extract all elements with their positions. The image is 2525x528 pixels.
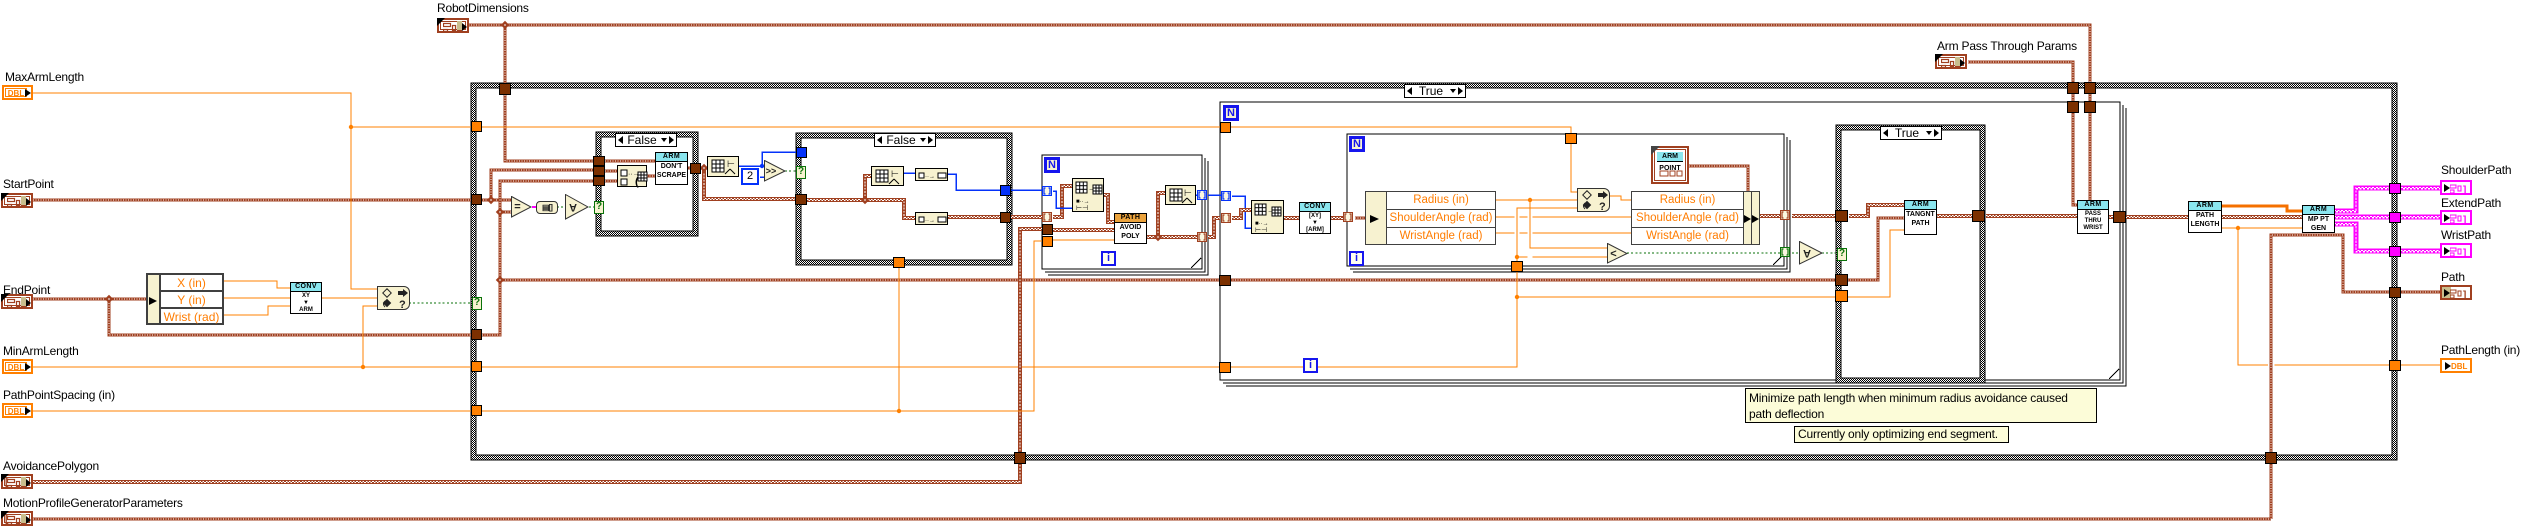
wire down to case 2: [704, 167, 796, 199]
wire MinArmLength to compare: [363, 306, 377, 367]
wire select to bundle radius: [1609, 196, 1631, 200]
wire build2 to CONV2: [1284, 217, 1299, 218]
loop 3 i: [1349, 251, 1364, 266]
wire index out blue to loop1: [948, 174, 1042, 190]
tunnel WristPath outer case: [2389, 246, 2401, 257]
wire crossing gap: [1528, 255, 1533, 260]
node compare in-range (start/end vs arm limits): [377, 286, 410, 310]
label WristPath: [2441, 228, 2523, 242]
node less than: [1607, 243, 1628, 264]
tunnel [] blue loop 1 in: [1042, 186, 1052, 196]
wire to ARM PASS THRU WRIST: [1986, 215, 2077, 216]
tunnel Params on loop 2 top: [2067, 101, 2079, 113]
wire boolean to outer case selector: [409, 302, 471, 304]
label StartPoint: [3, 177, 93, 191]
wire ShoulderPath: [2334, 187, 2440, 211]
wire crossing gap: [1515, 214, 1520, 220]
selector ? case 2: [796, 166, 806, 179]
junction MinArm tangent branch: [1515, 295, 1519, 299]
node CONV XY to ARM: [290, 282, 322, 314]
label AvoidancePolygon: [3, 459, 141, 473]
tunnel ShoulderPath outer case: [2389, 183, 2401, 194]
svg-text:?: ?: [1599, 201, 1606, 213]
svg-text:]: ]: [2463, 185, 2466, 195]
svg-text:⊢: ⊢: [1184, 188, 1192, 198]
svg-text:··→: ··→: [925, 218, 935, 224]
wire blue to case2 tunnel: [762, 152, 796, 166]
junction radius: [1528, 198, 1532, 202]
node unbundle (start/end): [617, 165, 647, 187]
tunnel 2 case 1: [593, 166, 605, 176]
tunnel [] array loop 1 out: [1197, 232, 1207, 242]
terminal PathLength (in): [2440, 358, 2472, 373]
junction RobotDimensions branch: [501, 21, 509, 29]
svg-text:]: ]: [2463, 248, 2466, 258]
tunnel MinArm loop 2: [1219, 362, 1231, 373]
subVI ARM PATH LENGTH: [2188, 201, 2222, 233]
node and array elements 2: [1799, 241, 1823, 265]
tunnel RobotDimensions on outer case top: [499, 83, 511, 95]
node array size 1: [707, 156, 739, 177]
node array size 2d: [871, 166, 904, 186]
wire EndPoint to equals: [500, 211, 512, 214]
wire ExtendPath: [2334, 216, 2440, 217]
tunnel MaxArm loop 3 top: [1565, 133, 1577, 144]
tunnel Params on outer case top: [2067, 82, 2079, 94]
bundle Radius ShoulderAngle WristAngle: [1631, 191, 1760, 245]
label MotionProfileGeneratorParameters: [3, 496, 269, 510]
wire CONV out to compare: [322, 297, 377, 299]
constant 2: [741, 168, 759, 185]
wire unbundle to ARM DONT SCRAPE: [647, 175, 655, 178]
label MinArmLength: [3, 344, 109, 358]
unbundle Radius ShoulderAngle WristAngle: [1365, 191, 1496, 245]
wire StartPoint: [33, 199, 491, 202]
tunnel StartPoint on outer case: [471, 194, 482, 205]
wire less-than out: [1627, 252, 1780, 254]
label MaxArmLength: [5, 70, 111, 84]
inner case label True: [1880, 126, 1942, 140]
wire case2 to index node: [807, 199, 915, 218]
tunnel [] boolean loop 3 out: [1780, 247, 1790, 257]
wire spacing to case2 bottom: [898, 258, 900, 411]
junction spacing: [897, 409, 901, 413]
tunnel cluster array case 2: [795, 194, 807, 205]
wire to and-array 2: [1792, 252, 1801, 254]
node CONV [XY] to [ARM]: [1299, 202, 1331, 234]
junction MinArmLength: [361, 365, 365, 369]
wire total length: [2221, 227, 2302, 229]
wire MotionProfileGeneratorParameters: [33, 518, 2271, 521]
svg-text:]: ]: [2463, 215, 2466, 225]
inner case structure (True): [1836, 125, 1985, 383]
subVI ARM POINT: [1651, 146, 1689, 184]
terminal ExtendPath: [2440, 210, 2472, 225]
label Path: [2441, 270, 2483, 284]
terminal MaxArmLength: [2, 85, 33, 100]
wire TANGNT out: [1936, 215, 1973, 216]
wire EndPoint main: [33, 181, 596, 335]
wire array loop1 to loop2: [1208, 217, 1220, 237]
wire MinArm to less-than: [1517, 256, 1608, 258]
label ExtendPath: [2441, 196, 2525, 210]
subVI PATH AVOID POLY: [1114, 213, 1147, 244]
tunnel AvoidancePolygon on outer case bottom: [1014, 452, 1026, 464]
wire StartPoint into case 1: [491, 170, 596, 200]
wire into unbundle a: [605, 170, 617, 173]
terminal EndPoint: [1, 294, 33, 309]
subVI ARM DON'T SCRAPE: [655, 152, 688, 185]
case structure (outer True case): [471, 83, 2397, 460]
tunnel MinArm inner case: [1835, 290, 1848, 302]
case structure 2 (False): [796, 133, 1012, 265]
junction EndPoint path branch: [496, 276, 504, 284]
wire array size to gte: [739, 165, 765, 167]
node cluster to boolean array: [536, 201, 558, 214]
wire MinArmLength: [33, 366, 363, 368]
svg-text:]: ]: [2463, 290, 2466, 300]
wire to array size 1: [704, 167, 711, 170]
wire bundle to inner case: [1792, 215, 1836, 216]
unbundle EndPoint (X,Y,Wrist): [146, 273, 224, 325]
wire ARM DONT SCRAPE out: [687, 167, 704, 170]
wire to and-array: [557, 206, 566, 208]
for loop 2 (outer iteration loop): [1220, 102, 2126, 386]
tunnel out loop 2 right: [2113, 211, 2126, 223]
wire crossing gap: [1528, 230, 1533, 236]
label ShoulderPath: [2441, 163, 2525, 177]
comment minimize path length: [1745, 388, 2097, 423]
terminal PathPointSpacing (in): [2, 403, 33, 418]
wire Radius out: [1496, 199, 1577, 201]
outer case label True: [1404, 84, 1466, 98]
wire PathPointSpacing (in): [33, 241, 1042, 411]
wire radius to less-than: [1530, 200, 1608, 248]
loop 2 i: [1303, 358, 1318, 373]
wire bundle out: [1758, 215, 1782, 216]
for loop 3 (min radius loop): [1347, 134, 1790, 272]
svg-text:··→: ··→: [925, 174, 935, 180]
wire EndPoint to unbundle: [109, 298, 147, 301]
wire build to PATH AVOID POLY: [1104, 194, 1114, 222]
wire polygon to PATH AVOID POLY: [1053, 229, 1114, 230]
wire and-array 2 to inner case selector: [1822, 252, 1836, 254]
wire WristAngle: [1496, 232, 1631, 234]
tunnel MotionProfile on outer case bottom: [2265, 452, 2277, 464]
tunnel cluster inner case: [1835, 274, 1848, 286]
wire MinArm to ARM TANGNT PATH: [1517, 230, 1904, 297]
wire MinArmLength inside loop 3 to select: [1517, 208, 1577, 261]
tunnel out case 1: [690, 163, 701, 174]
wire path lengths array: [2221, 206, 2302, 211]
svg-text:⊢: ⊢: [891, 169, 899, 179]
wire up to array size 2: [1158, 192, 1165, 237]
tunnel Path outer case: [2389, 287, 2401, 298]
junction MinArm at less-than: [1515, 255, 1519, 259]
svg-text:⊢: ⊢: [727, 159, 735, 169]
tunnel [] array loop 2: [1221, 213, 1231, 223]
tunnel out inner case: [1972, 210, 1985, 222]
tunnel RobotDimensions right on outer case top: [2084, 82, 2096, 94]
tunnel [] blue loop 1 out: [1197, 190, 1207, 200]
wire inside loop1 to build node: [1053, 185, 1072, 217]
junction StartPoint: [487, 196, 495, 204]
wire Arm Pass Through Params: [1968, 62, 2077, 205]
wire PATH AVOID POLY out: [1146, 236, 1197, 237]
wire index out to loop1: [948, 216, 1042, 217]
tunnel MinArmLength on outer case: [471, 361, 482, 372]
wire array inside loop2: [1232, 209, 1251, 218]
wire MinArmLength long run: [363, 262, 1517, 367]
tunnel ExtendPath outer case: [2389, 212, 2401, 223]
tunnel 1 case 1: [593, 156, 605, 166]
wire MaxArmLength down to compare: [33, 93, 377, 289]
tunnel path cluster loop 2: [1219, 275, 1231, 286]
tunnel 3 case 1: [593, 176, 605, 186]
tunnel [] loop 3 in: [1343, 212, 1353, 222]
svg-text:⊢⊣: ⊢⊣: [1255, 227, 1267, 234]
tunnel RobotDimensions on loop 2 top: [2084, 101, 2096, 113]
node index array a: [915, 168, 948, 181]
node array size 3: [1165, 185, 1196, 205]
wire to ARM TANGNT PATH: [1849, 204, 1904, 216]
wire blue inside loop2: [1232, 196, 1251, 228]
terminal ShoulderPath: [2440, 180, 2472, 195]
wire MaxArmLength inside loop 3 to select: [1571, 144, 1577, 192]
wire Y (in) to CONV: [224, 297, 290, 299]
label PathPointSpacing (in): [3, 388, 181, 402]
wire to PathLength terminal: [2238, 228, 2440, 365]
junction avoid out: [1154, 233, 1162, 241]
case 2 label False: [874, 133, 936, 147]
wire array size 2 out: [1196, 194, 1197, 196]
tunnel blue case 2: [796, 147, 807, 158]
node and array elements: [565, 194, 589, 220]
terminal StartPoint: [1, 193, 33, 208]
node insert into array 2: [1251, 200, 1284, 234]
junction MaxArmLength: [349, 125, 353, 129]
wire into ARM DONT SCRAPE: [605, 160, 655, 163]
tunnel MinArm loop 3 bottom: [1511, 261, 1523, 272]
label PathLength (in): [2441, 343, 2525, 357]
node select (radius clamp): [1577, 188, 1610, 212]
selector ? case 1: [594, 201, 604, 214]
label Arm Pass Through Params: [1937, 39, 2131, 53]
tunnel PathPointSpacing on outer case: [471, 405, 482, 416]
junction total length: [2236, 226, 2240, 230]
tunnel polygon loop 1: [1042, 224, 1053, 235]
wire AvoidancePolygon: [33, 228, 1042, 482]
case 1 label False: [615, 133, 677, 147]
for loop 1 (avoid poly loop): [1042, 155, 1208, 275]
wire blue inside loop1: [1053, 191, 1072, 208]
wire crossing gap: [2268, 361, 2275, 369]
tunnel blue out case 2: [1000, 185, 1011, 196]
junction case2: [861, 196, 869, 204]
loop 3 N: [1349, 136, 1365, 152]
subVI ARM PASS THRU WRIST: [2077, 200, 2109, 234]
wire CONV2 to loop3: [1330, 217, 1343, 218]
node index array b: [915, 212, 948, 225]
wire RobotDimensions branch into case 1: [505, 25, 596, 161]
tunnel [] loop 3 out: [1780, 210, 1790, 220]
wire up to delete node: [865, 175, 871, 200]
tunnel EndPoint on outer case: [471, 329, 482, 340]
node insert into array 1: [1072, 178, 1104, 212]
wire into unbundle3: [1355, 217, 1368, 220]
subVI ARM TANGNT PATH: [1904, 200, 1937, 235]
terminal Path: [2440, 285, 2472, 300]
node equals: [511, 196, 532, 218]
case structure 1 (False): [596, 132, 698, 236]
wire ARM POINT to bundle: [1689, 166, 1748, 191]
junction scrape out: [700, 164, 708, 172]
tunnel MaxArmLength on outer case: [471, 121, 482, 132]
terminal MotionProfileGeneratorParameters: [1, 511, 33, 526]
label EndPoint: [3, 283, 77, 297]
terminal Arm Pass Through Params: [1935, 54, 1967, 69]
subVI ARM MP PT GEN: [2302, 205, 2335, 233]
wire const 2 to gte: [760, 176, 765, 178]
terminal WristPath: [2440, 243, 2472, 258]
loop 1 i: [1101, 251, 1116, 266]
selector ? inner case: [1837, 248, 1847, 261]
wire MotionProfileGeneratorParameters and Path out: [2271, 235, 2440, 519]
junction EndPoint: [105, 295, 113, 303]
selector ? outer case: [472, 297, 482, 310]
wire into unbundle b: [605, 180, 617, 183]
svg-text:⊢⊣: ⊢⊣: [1076, 205, 1088, 212]
tunnel path in inner case: [1835, 210, 1848, 222]
wire gte to case2 selector: [785, 170, 796, 172]
node greater or equal: [764, 160, 786, 182]
terminal RobotDimensions: [437, 18, 469, 33]
wire delete to index blue: [904, 172, 915, 174]
tunnel MaxArm loop 2: [1220, 122, 1231, 133]
wire crossing gap: [1515, 230, 1520, 236]
tunnel PathLength outer case: [2389, 360, 2401, 371]
wire blue loop1 to loop2: [1208, 194, 1222, 196]
wire crossing gap: [1528, 214, 1533, 220]
terminal MinArmLength: [2, 359, 33, 374]
tunnel array out case 2: [1000, 212, 1011, 223]
junction blue: [760, 164, 764, 168]
wire RobotDimensions to ARM PASS THRU WRIST: [466, 25, 2090, 200]
wire WristPath: [2334, 223, 2440, 251]
wire StartPoint to equals: [491, 199, 512, 202]
tunnel [] blue loop 2: [1221, 191, 1231, 201]
wire path cluster to ARM TANGNT PATH: [500, 218, 1904, 280]
junction EndPoint at equals: [496, 208, 504, 216]
tunnel spacing loop 1: [1042, 236, 1053, 247]
terminal AvoidancePolygon: [1, 474, 33, 489]
loop 1 N: [1044, 157, 1060, 173]
wire MaxArmLength long run to loop 3: [351, 127, 1571, 133]
wire equals out: [532, 206, 538, 208]
tunnel spacing case 2 bottom: [893, 257, 905, 268]
label RobotDimensions: [437, 1, 567, 15]
wire Wrist (rad) to CONV: [224, 306, 290, 315]
wire and-array to case1 selector: [589, 206, 596, 208]
wire ShoulderAngle: [1496, 216, 1631, 218]
wire PASS THRU to PATH LENGTH and MP PT GEN: [2108, 216, 2302, 217]
wire X (in) to CONV: [224, 281, 290, 288]
comment currently only optimizing: [1794, 426, 2009, 443]
svg-text:?: ?: [399, 299, 406, 311]
tunnel [] array loop 1 in: [1042, 212, 1052, 222]
loop 2 N: [1223, 105, 1239, 121]
wire spacing to PATH AVOID POLY: [1053, 239, 1114, 241]
